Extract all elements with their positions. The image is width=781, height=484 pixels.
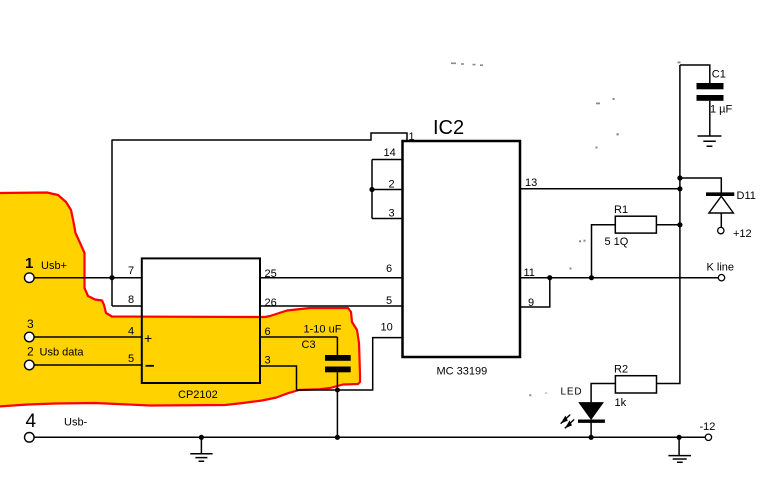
junction dot LED on rail [589, 435, 594, 440]
label +12 [733, 228, 752, 240]
junction dot pin9/pin11 [547, 275, 552, 280]
svg-text:10: 10 [381, 322, 393, 334]
resistor R1 [615, 216, 656, 233]
svg-text:3: 3 [389, 208, 395, 220]
svg-text:2: 2 [27, 345, 34, 359]
wire vertical from top loop down to pin 8 row [111, 140, 113, 307]
pin 8 label [128, 294, 134, 306]
svg-text:5: 5 [128, 353, 134, 365]
pin 25 label [265, 268, 277, 280]
connector pad 1 Usb+ [25, 273, 35, 283]
capacitor C3 [325, 355, 351, 372]
terminal K line [718, 275, 724, 281]
R1 right lead [656, 224, 680, 226]
label 4 [26, 411, 37, 432]
connector pad 3 [25, 332, 35, 342]
pin 10 label [381, 322, 393, 334]
pin 26 label [265, 297, 277, 309]
R2 left lead to LED [591, 384, 615, 403]
label Usb+ [41, 260, 67, 272]
ground symbol below rail center [190, 437, 212, 461]
pin 9 label [528, 297, 534, 309]
svg-text:R2: R2 [614, 364, 628, 376]
R1 value 510 [605, 236, 629, 248]
svg-text:26: 26 [265, 297, 277, 309]
junction dot pin13 [677, 186, 682, 191]
CP2102 label [178, 389, 218, 401]
label 2 [27, 345, 34, 359]
ground symbol below C1 [698, 136, 722, 146]
svg-text:1 µF: 1 µF [710, 104, 733, 116]
junction dot center ground on rail [199, 435, 204, 440]
svg-text:3: 3 [27, 317, 34, 331]
svg-text:C3: C3 [302, 339, 316, 351]
label Usb data [40, 347, 85, 359]
pin 6 label [265, 326, 271, 338]
highlight blob (yellow region with red outline) [0, 193, 360, 407]
svg-text:Usb+: Usb+ [41, 260, 67, 272]
junction dot node A [109, 275, 114, 280]
wire top loop from node A to IC2 pin 1 [112, 133, 407, 141]
minus polarity mark [146, 365, 155, 367]
svg-text:13: 13 [525, 177, 537, 189]
svg-text:CP2102: CP2102 [178, 389, 218, 401]
capacitor C1 [697, 83, 724, 101]
svg-text:2: 2 [389, 179, 395, 191]
wire IC2 pin 11 K line [520, 277, 719, 279]
svg-text:MC 33199: MC 33199 [437, 365, 488, 377]
svg-text:1: 1 [25, 255, 33, 272]
label -12 [700, 421, 716, 433]
pin 13 label [525, 177, 537, 189]
wire Usb+ to CP2102 pin 7 [33, 277, 142, 279]
main vertical supply wire [657, 65, 680, 384]
resistor R2 [615, 376, 656, 393]
label Usb- [64, 417, 88, 429]
plus polarity mark [144, 330, 152, 346]
op-amp IC2 box [403, 141, 521, 357]
svg-text:1-10 uF: 1-10 uF [304, 324, 342, 336]
wire IC2 pin 9 up to pin 11 [520, 278, 550, 307]
svg-text:IC2: IC2 [433, 117, 464, 139]
pin 3 label [389, 208, 395, 220]
wire to capacitor C1 [680, 65, 710, 83]
junction dot C3 / pin3 wire [335, 388, 340, 393]
stray gray specks [451, 62, 681, 397]
pin 5 label [128, 353, 134, 365]
wire CP2102 pin 26 to IC2 pin 5 [260, 305, 403, 307]
wire bottom ground rail Usb- to -12 [33, 436, 708, 438]
pin 2 label [389, 179, 395, 191]
svg-text:1k: 1k [615, 397, 627, 409]
svg-text:C1: C1 [712, 69, 726, 81]
junction dot C3 lead on rail [335, 435, 340, 440]
junction dot on bracket pin 2 [369, 187, 374, 192]
ground symbol bottom right [668, 437, 691, 462]
pin 7 label [128, 265, 134, 277]
svg-text:7: 7 [128, 265, 134, 277]
wire CP2102 pin 6 to capacitor C3 [260, 337, 337, 355]
IC2 label [433, 117, 464, 139]
C1 ground lead [709, 101, 711, 136]
pin 11 label [524, 267, 535, 279]
label 1 [25, 255, 33, 272]
wire Usb data(3) to CP2102 pin 4 [33, 336, 142, 338]
wire CP2102 pin 3 to IC2 pin 10 [260, 338, 403, 390]
LED label [561, 387, 583, 398]
wire C3 bottom lead to ground rail [336, 372, 338, 437]
svg-text:R1: R1 [614, 204, 628, 216]
svg-text:Usb data: Usb data [40, 347, 85, 359]
LED emission arrows [561, 415, 575, 429]
svg-text:K line: K line [707, 262, 735, 274]
svg-text:5 1Q: 5 1Q [605, 236, 629, 248]
terminal +12 [718, 227, 724, 233]
svg-text:4: 4 [128, 326, 134, 338]
IC2 input bracket pins 14,2,3 [372, 160, 403, 219]
C1 label [712, 69, 726, 81]
wire CP2102 pin 25 to IC2 pin 6 [260, 277, 403, 279]
svg-text:8: 8 [128, 294, 134, 306]
C1 value 1 uF [710, 104, 733, 116]
svg-text:Usb-: Usb- [64, 417, 88, 429]
pin 6 label [386, 263, 392, 275]
R2 label [614, 364, 628, 376]
label 3 [27, 317, 34, 331]
terminal -12 [705, 434, 711, 440]
R1 left lead down to K line [592, 225, 616, 278]
USB chip CP2102 box [142, 258, 260, 383]
svg-text:14: 14 [384, 147, 396, 159]
D11 label [737, 190, 756, 202]
svg-text:3: 3 [265, 355, 271, 367]
svg-text:D11: D11 [737, 190, 756, 202]
LED [578, 403, 605, 438]
pin 14 label [384, 147, 396, 159]
junction dot ground stub right [677, 435, 682, 440]
IC2 value label MC 33199 [437, 365, 488, 377]
svg-text:LED: LED [561, 387, 583, 398]
pin 4 label [128, 326, 134, 338]
svg-text:4: 4 [26, 411, 37, 432]
junction dot D11 branch [677, 175, 682, 180]
wire IC2 pin 13 to main vertical [520, 188, 680, 190]
pin 1 label [409, 131, 415, 143]
C3 label [302, 339, 316, 351]
wire Usb data(2) to CP2102 pin 5 [33, 364, 142, 366]
svg-text:1: 1 [409, 131, 415, 143]
connector pad 2 Usb data [25, 360, 35, 370]
svg-text:25: 25 [265, 268, 277, 280]
svg-text:+12: +12 [733, 228, 752, 240]
svg-text:6: 6 [386, 263, 392, 275]
svg-text:5: 5 [386, 295, 392, 307]
junction dot R1 right [677, 222, 682, 227]
C3 value label 1-10 uF [304, 324, 342, 336]
junction dot R1 branch [589, 275, 594, 280]
svg-text:6: 6 [265, 326, 271, 338]
pin 5 label [386, 295, 392, 307]
wire to CP2102 pin 8 [112, 305, 142, 307]
svg-text:+: + [144, 330, 152, 346]
connector pad 4 Usb- [25, 433, 35, 443]
R1 label [614, 204, 628, 216]
diode D11 [706, 194, 734, 228]
label K line [707, 262, 735, 274]
wire branch to diode D11 [680, 178, 721, 194]
pin 3 label [265, 355, 271, 367]
svg-text:-12: -12 [700, 421, 716, 433]
R2 value 1k [615, 397, 627, 409]
